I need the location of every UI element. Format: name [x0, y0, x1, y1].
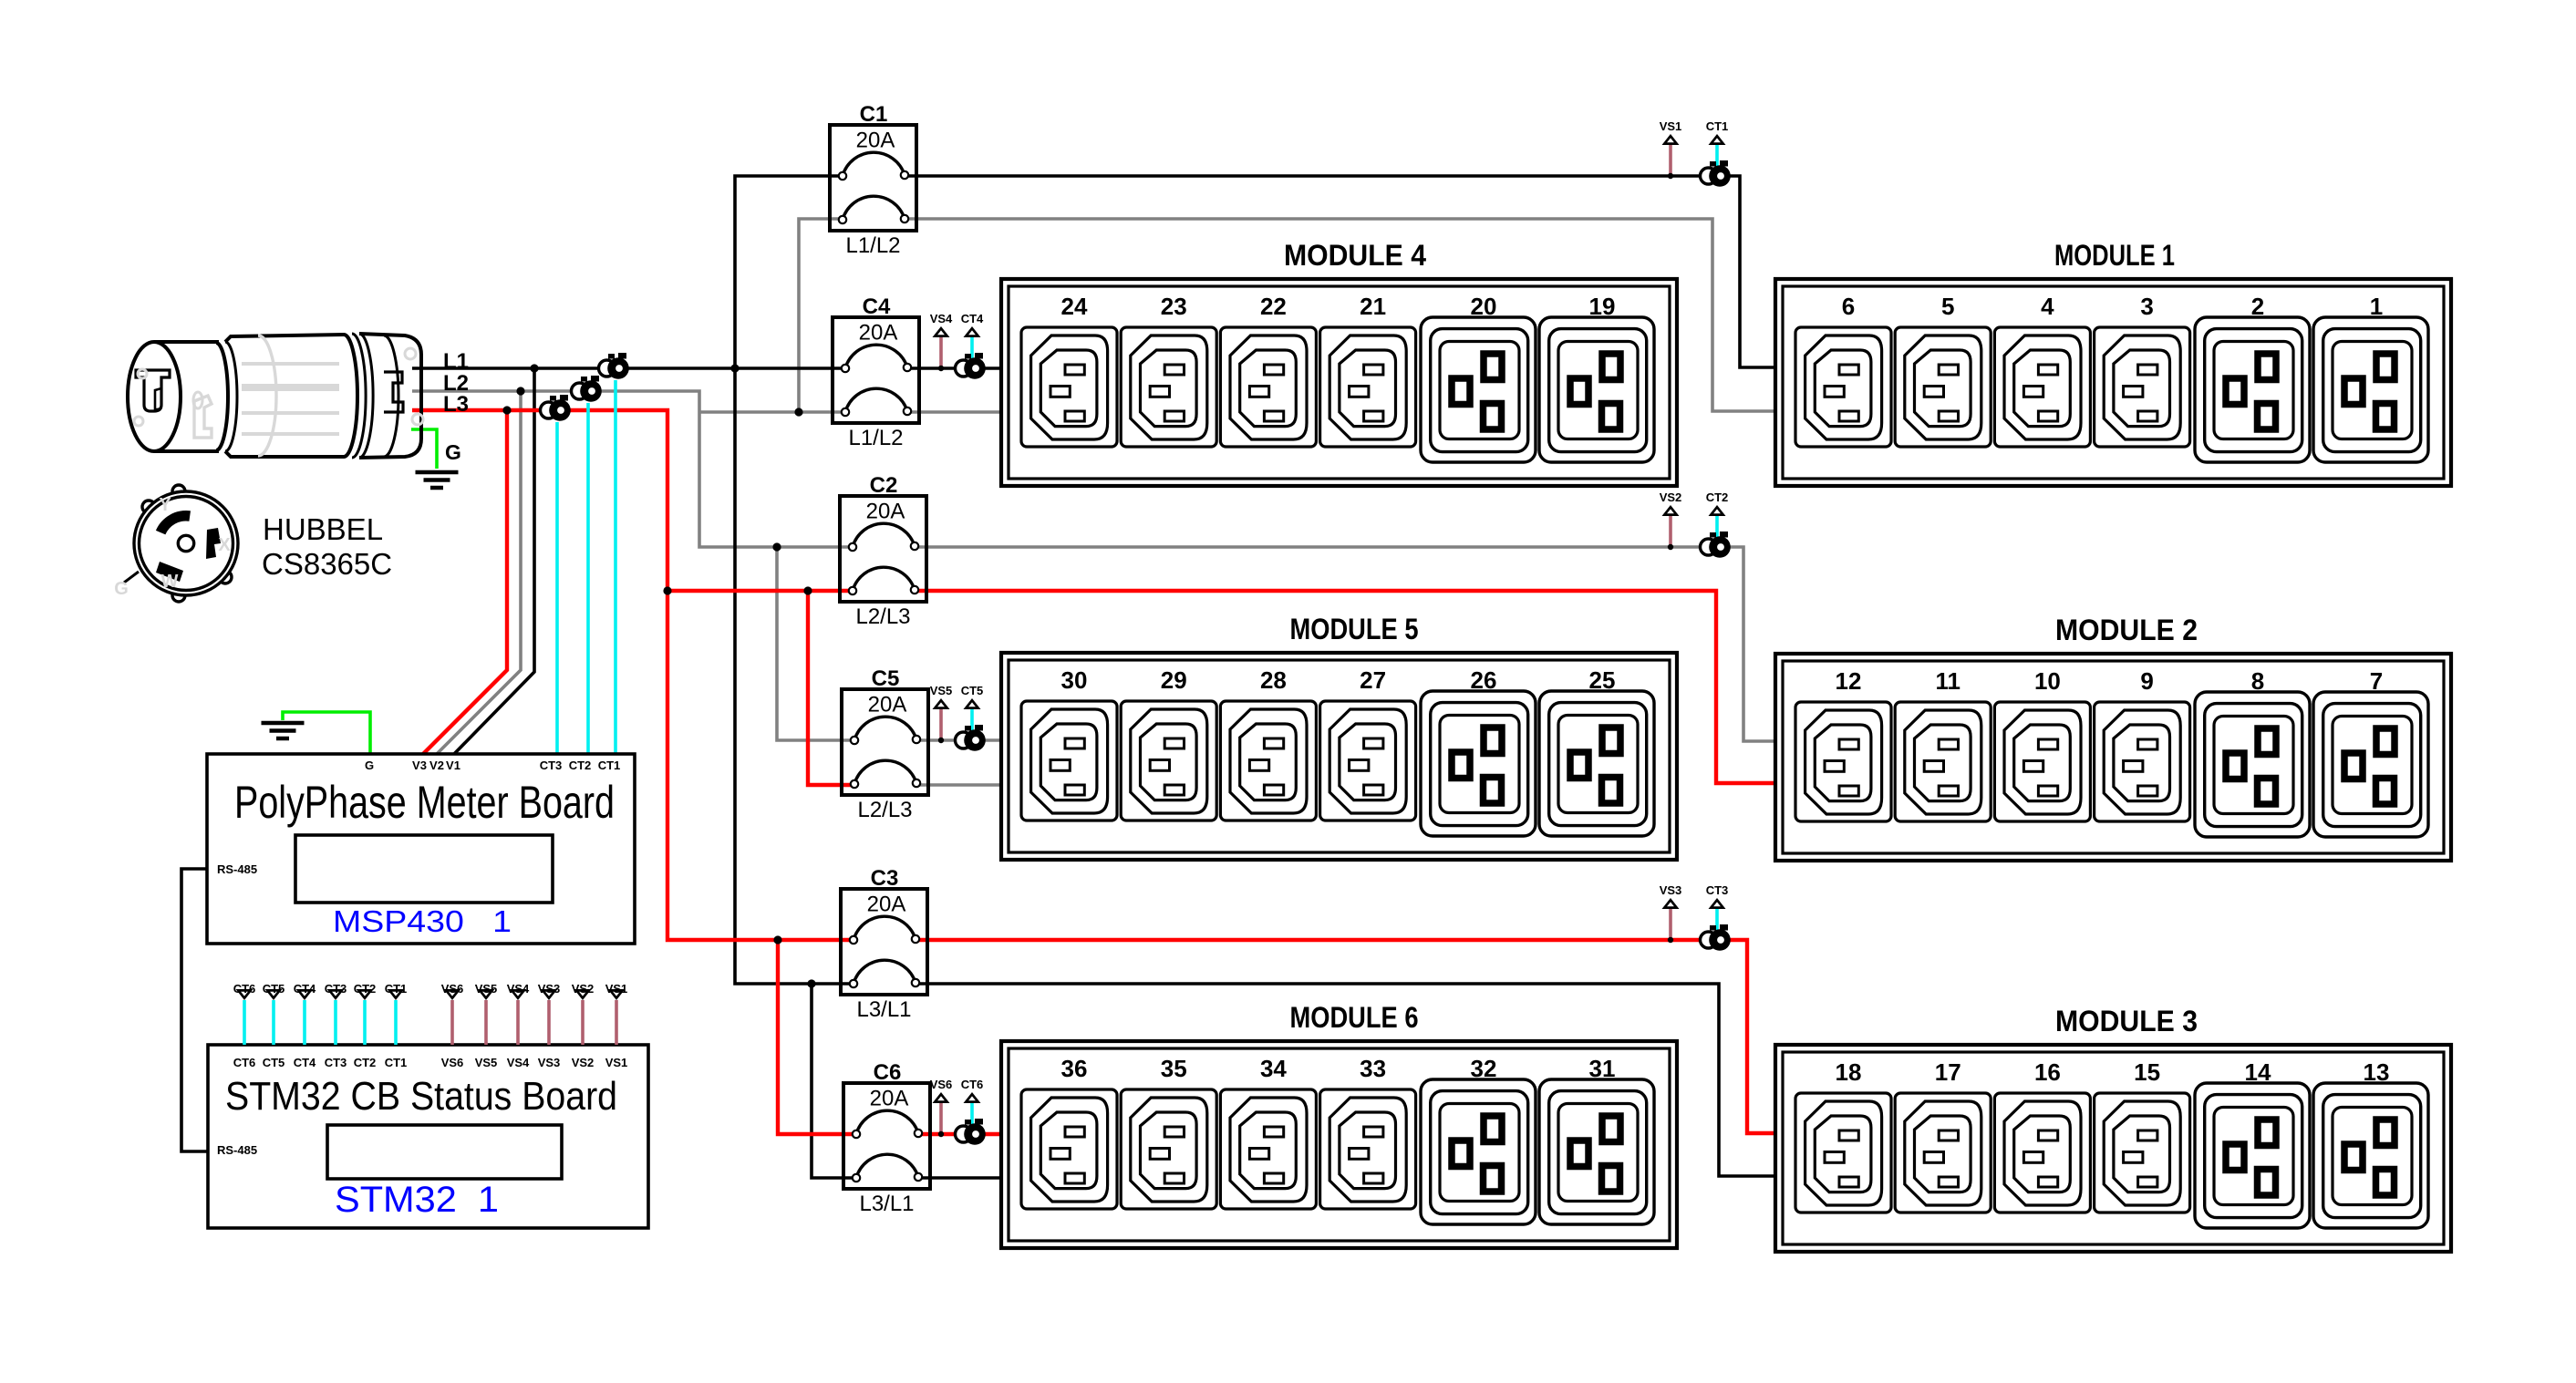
svg-text:CT5: CT5 [961, 684, 984, 697]
svg-text:36: 36 [1061, 1055, 1088, 1082]
svg-text:9: 9 [2140, 667, 2153, 695]
svg-text:V1: V1 [446, 759, 460, 772]
CT clamp CT1 [1701, 160, 1731, 187]
svg-text:13: 13 [2364, 1058, 2390, 1086]
svg-text:32: 32 [1471, 1055, 1497, 1082]
wire L1 riser to C1 [735, 176, 843, 368]
terminal arrow CT4 into STM32 [296, 989, 314, 1000]
svg-text:L1/L2: L1/L2 [845, 233, 900, 258]
ground symbol at plug [416, 472, 459, 488]
circuit breaker C6 20A [843, 1083, 930, 1189]
wire L2 branch to C4/C1 [699, 410, 845, 414]
connector face Hubbel CS8365C [124, 485, 238, 602]
svg-text:1: 1 [2370, 293, 2383, 320]
sense arrow CT4 [964, 326, 981, 337]
node L3 to C5 tap [803, 586, 812, 594]
terminal arrow CT6 into STM32 [236, 989, 253, 1000]
circuit breaker C4 20A [833, 317, 919, 423]
wire L3 drop to C6 [778, 940, 856, 1134]
node L2 sense tap [516, 387, 524, 395]
wire CT4 stub [303, 1000, 306, 1045]
svg-text:33: 33 [1360, 1055, 1386, 1082]
svg-text:34: 34 [1260, 1055, 1287, 1082]
terminal arrow VS3 into STM32 [541, 989, 558, 1000]
wire C4 to module 4 lower [907, 410, 1001, 414]
wire L2 from plug [412, 391, 853, 547]
svg-text:CT2: CT2 [569, 759, 592, 772]
svg-text:CT1: CT1 [598, 759, 621, 772]
sense arrow CT3 [1709, 898, 1726, 909]
svg-text:CT4: CT4 [961, 312, 984, 325]
svg-text:8: 8 [2251, 667, 2264, 695]
face pin letters [114, 495, 231, 599]
svg-text:VS1: VS1 [605, 982, 628, 996]
svg-text:35: 35 [1161, 1055, 1187, 1082]
svg-text:31: 31 [1589, 1055, 1616, 1082]
svg-text:C2: C2 [870, 473, 898, 498]
sense arrow VS1 [1662, 134, 1680, 145]
wire CT2 stub [363, 1000, 367, 1045]
svg-text:G: G [114, 579, 129, 599]
CT clamp CT6 [956, 1119, 986, 1145]
svg-text:24: 24 [1061, 293, 1088, 320]
wire CT2 lead [586, 403, 590, 754]
svg-text:19: 19 [1589, 293, 1616, 320]
wire L1 sense drop to meter V1 [454, 368, 534, 754]
wire RS-485 bus [181, 869, 208, 1151]
CT2 clamp on L2 [572, 376, 602, 402]
CT clamp CT4 [956, 353, 986, 379]
wire C5 to module 5 upper [916, 738, 1001, 742]
svg-text:W: W [161, 572, 179, 592]
terminal arrow VS2 into STM32 [574, 989, 592, 1000]
wire CT3 lead [555, 422, 559, 754]
svg-text:PolyPhase Meter Board: PolyPhase Meter Board [234, 777, 615, 828]
svg-text:VS2: VS2 [1660, 490, 1682, 504]
wire C6 to module 6 lower [918, 1176, 1001, 1180]
svg-text:CT6: CT6 [961, 1078, 984, 1091]
sense arrow CT1 [1709, 134, 1726, 145]
node L1 sense tap [530, 364, 538, 372]
wire CT5 stub [272, 1000, 275, 1045]
svg-text:11: 11 [1935, 667, 1960, 695]
sense arrow CT5 [964, 698, 981, 709]
svg-text:22: 22 [1260, 293, 1287, 320]
svg-text:20: 20 [1471, 293, 1497, 320]
wire C3 to module 3 upper [916, 940, 1775, 1133]
svg-text:28: 28 [1260, 666, 1287, 694]
node L2 to C5 tap [772, 542, 781, 551]
svg-text:VS3: VS3 [538, 982, 561, 996]
wire C1 to module 1 lower [905, 219, 1775, 411]
svg-text:X: X [218, 535, 231, 555]
wire L1 drop to C3 [735, 368, 853, 984]
terminal arrow CT1 into STM32 [388, 989, 405, 1000]
svg-text:CT5: CT5 [263, 982, 285, 996]
node VS3 tap [1668, 937, 1673, 943]
wire CT6 stub [243, 1000, 246, 1045]
svg-text:VS6: VS6 [441, 982, 464, 996]
wire C3 to module 3 lower [916, 984, 1775, 1176]
svg-text:L2/L3: L2/L3 [855, 604, 910, 629]
sense arrow VS2 [1662, 505, 1680, 516]
svg-text:CT2: CT2 [354, 982, 377, 996]
wire L2 riser to C1 [799, 219, 843, 412]
svg-text:CS8365C: CS8365C [262, 547, 392, 581]
wire C2 to module 2 lower [915, 591, 1775, 783]
svg-text:VS6: VS6 [441, 1056, 464, 1069]
svg-text:7: 7 [2370, 667, 2383, 695]
outlet module 2 [1775, 614, 2451, 861]
svg-text:10: 10 [2034, 667, 2061, 695]
wire meter ground [283, 712, 370, 754]
outlet module 4 [1001, 239, 1677, 486]
svg-text:MODULE 5: MODULE 5 [1290, 613, 1419, 645]
wire L2 drop to C5 [777, 547, 854, 740]
svg-text:VS3: VS3 [1660, 883, 1682, 897]
svg-text:L3: L3 [443, 392, 469, 417]
svg-text:VS5: VS5 [475, 1056, 498, 1069]
svg-text:23: 23 [1161, 293, 1187, 320]
svg-text:C3: C3 [871, 866, 899, 891]
node VS1 tap [1668, 173, 1673, 179]
CT clamp CT2 [1701, 532, 1731, 558]
node L2 to C4 tap [794, 408, 802, 416]
circuit breaker C1 20A [830, 125, 916, 231]
sense arrow CT2 [1709, 505, 1726, 516]
svg-text:27: 27 [1360, 666, 1386, 694]
terminal arrow CT3 into STM32 [327, 989, 345, 1000]
svg-text:VS5: VS5 [475, 982, 498, 996]
CT3 clamp on L3 [541, 395, 571, 421]
wire VS5 stub [484, 1000, 488, 1045]
terminal arrow CT2 into STM32 [357, 989, 374, 1000]
outlet module 3 [1775, 1005, 2451, 1252]
svg-text:VS4: VS4 [930, 312, 953, 325]
wire L3 sense drop to meter V3 [423, 410, 507, 754]
svg-text:MSP430 1: MSP430 1 [333, 904, 512, 938]
wire VS6 stub [450, 1000, 454, 1045]
wire CT1 lead [614, 380, 617, 754]
sense arrow VS6 [933, 1092, 950, 1103]
wire CT3 stub [334, 1000, 337, 1045]
svg-text:MODULE 3: MODULE 3 [2055, 1005, 2198, 1037]
sense arrow VS5 [933, 698, 950, 709]
PolyPhase Meter Board U1 [207, 754, 635, 944]
svg-text:RS-485: RS-485 [217, 862, 257, 876]
svg-text:2: 2 [2251, 293, 2264, 320]
outlet module 5 [1001, 613, 1677, 860]
wire L3 from plug [412, 410, 853, 940]
svg-text:G: G [365, 759, 374, 772]
svg-text:RS-485: RS-485 [217, 1143, 257, 1157]
sense arrow CT6 [964, 1092, 981, 1103]
svg-text:26: 26 [1471, 666, 1497, 694]
svg-text:STM32 1: STM32 1 [335, 1180, 499, 1220]
svg-text:VS2: VS2 [572, 982, 595, 996]
face blades [156, 511, 221, 582]
ground symbol at meter [262, 723, 305, 738]
wire C1 to module 1 upper [905, 176, 1775, 367]
svg-text:16: 16 [2034, 1058, 2061, 1086]
svg-text:CT1: CT1 [1706, 119, 1729, 133]
wire L3 branch to C2 [667, 589, 853, 593]
svg-text:VS3: VS3 [538, 1056, 561, 1069]
svg-text:CT1: CT1 [385, 1056, 408, 1069]
svg-text:29: 29 [1161, 666, 1187, 694]
svg-text:VS4: VS4 [507, 1056, 530, 1069]
node VS5 tap [938, 738, 944, 743]
svg-text:C5: C5 [872, 666, 900, 691]
node L3 sense tap [502, 406, 511, 414]
wire VS3 stub [547, 1000, 551, 1045]
svg-text:CT5: CT5 [263, 1056, 285, 1069]
wire C4 to module 4 upper [907, 366, 1001, 370]
CT clamp CT5 [956, 725, 986, 751]
wire C2 to module 2 upper [915, 547, 1775, 741]
outlet module 6 [1001, 1001, 1677, 1248]
svg-text:VS6: VS6 [930, 1078, 953, 1091]
svg-text:HUBBEL: HUBBEL [263, 512, 383, 546]
node VS6 tap [938, 1131, 944, 1137]
svg-text:MODULE 2: MODULE 2 [2055, 614, 2198, 646]
svg-text:MODULE 6: MODULE 6 [1290, 1001, 1419, 1034]
svg-text:L1/L2: L1/L2 [848, 426, 903, 450]
wire L2 sense drop to meter V2 [437, 391, 521, 754]
wire plug ground [411, 429, 437, 469]
terminal arrow CT5 into STM32 [265, 989, 283, 1000]
wire L1 drop to C6 [812, 984, 856, 1178]
wire VS2 stub [581, 1000, 585, 1045]
svg-text:17: 17 [1935, 1058, 1961, 1086]
svg-text:MODULE 1: MODULE 1 [2054, 239, 2175, 272]
svg-text:6: 6 [1842, 293, 1855, 320]
node VS2 tap [1668, 544, 1673, 550]
plug ghost details (light gray) [134, 335, 423, 456]
svg-text:C6: C6 [874, 1060, 902, 1085]
svg-text:14: 14 [2245, 1058, 2271, 1086]
svg-text:VS2: VS2 [572, 1056, 595, 1069]
sense arrow VS3 [1662, 898, 1680, 909]
terminal arrow VS6 into STM32 [444, 989, 461, 1000]
svg-text:CT2: CT2 [1706, 490, 1729, 504]
sense arrow VS4 [933, 326, 950, 337]
svg-text:VS1: VS1 [1660, 119, 1682, 133]
svg-text:Y: Y [159, 495, 171, 515]
wire L3 drop to C5 [808, 591, 854, 785]
svg-text:CT3: CT3 [325, 1056, 347, 1069]
svg-text:30: 30 [1061, 666, 1088, 694]
svg-text:L1: L1 [443, 349, 469, 374]
svg-text:21: 21 [1360, 293, 1386, 320]
svg-text:CT6: CT6 [233, 982, 256, 996]
wire L1 from plug [412, 366, 845, 370]
svg-text:CT2: CT2 [354, 1056, 377, 1069]
svg-text:18: 18 [1836, 1058, 1862, 1086]
node L1 bus tap [730, 364, 739, 372]
svg-text:VS4: VS4 [507, 982, 530, 996]
wire C6 to module 6 upper [918, 1132, 1001, 1136]
circuit breaker C2 20A [840, 496, 926, 602]
svg-text:L3/L1: L3/L1 [859, 1192, 914, 1216]
svg-text:CT3: CT3 [540, 759, 563, 772]
svg-text:CT1: CT1 [385, 982, 408, 996]
svg-text:CT6: CT6 [233, 1056, 256, 1069]
svg-text:C4: C4 [863, 294, 891, 319]
CT1 clamp on L1 [599, 353, 629, 379]
svg-text:5: 5 [1941, 293, 1954, 320]
svg-text:V3: V3 [412, 759, 427, 772]
svg-text:CT3: CT3 [1706, 883, 1729, 897]
svg-text:STM32 CB Status Board: STM32 CB Status Board [225, 1074, 617, 1119]
svg-text:15: 15 [2134, 1058, 2160, 1086]
terminal arrow VS1 into STM32 [608, 989, 626, 1000]
node VS4 tap [938, 366, 944, 371]
svg-text:VS5: VS5 [930, 684, 953, 697]
svg-text:C1: C1 [860, 102, 888, 127]
svg-text:L2/L3: L2/L3 [857, 798, 912, 822]
svg-text:3: 3 [2140, 293, 2153, 320]
circuit breaker C3 20A [841, 889, 927, 995]
connector P1 Hubbel CS8365C plug body [128, 334, 421, 458]
svg-text:MODULE 4: MODULE 4 [1284, 239, 1426, 272]
svg-text:12: 12 [1836, 667, 1862, 695]
svg-text:VS1: VS1 [605, 1056, 628, 1069]
STM32 CB Status Board U2 [208, 1045, 648, 1228]
svg-text:CT3: CT3 [325, 982, 347, 996]
node L3 bus tap [663, 586, 671, 594]
wire C5 to module 5 lower [916, 783, 1001, 787]
svg-text:CT4: CT4 [294, 982, 316, 996]
wire VS1 stub [615, 1000, 618, 1045]
svg-text:G: G [445, 440, 461, 464]
CT clamp CT3 [1701, 924, 1731, 951]
svg-text:L3/L1: L3/L1 [856, 997, 911, 1022]
node L1 to C6 tap [807, 979, 815, 987]
svg-text:25: 25 [1589, 666, 1616, 694]
circuit breaker C5 20A [842, 689, 928, 795]
svg-text:V2: V2 [429, 759, 444, 772]
wire VS4 stub [516, 1000, 520, 1045]
svg-text:CT4: CT4 [294, 1056, 316, 1069]
terminal arrow VS4 into STM32 [510, 989, 527, 1000]
node L3 to C6 tap [773, 935, 781, 944]
wire CT1 stub [394, 1000, 398, 1045]
svg-text:4: 4 [2041, 293, 2054, 320]
terminal arrow VS5 into STM32 [478, 989, 495, 1000]
outlet module 1 [1775, 239, 2451, 486]
